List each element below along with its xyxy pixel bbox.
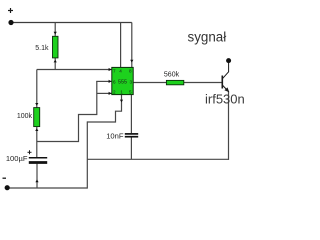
wire: pin7 horizontal run	[37, 69, 112, 71]
pin arrow 555 pin7	[109, 68, 112, 71]
wire: R2 bottom to C1 top	[36, 127, 38, 157]
pin arrow 555 pin6	[109, 80, 112, 83]
wire: C1 bottom to ground rail	[36, 164, 38, 188]
svg-text:3: 3	[130, 79, 133, 84]
battery positive terminal +	[8, 8, 13, 13]
pin arrow R1 bottom	[54, 60, 57, 63]
wire: ground riser up to net B	[86, 121, 88, 188]
svg-text:5: 5	[129, 90, 132, 95]
pin arrow R1 top	[54, 32, 57, 35]
capacitor C2 10nF bottom plate	[125, 136, 138, 138]
svg-text:10nF: 10nF	[106, 132, 124, 141]
pin arrow 555 pin1	[120, 100, 123, 103]
svg-text:6: 6	[113, 79, 116, 84]
wire: pin2 stub	[97, 92, 112, 94]
IC U1 555 body	[112, 67, 133, 94]
svg-text:560k: 560k	[164, 72, 180, 79]
svg-text:100µF: 100µF	[6, 154, 28, 163]
wire: C2 bottom to ground branch	[130, 137, 132, 159]
svg-text:5.1k: 5.1k	[35, 45, 49, 52]
capacitor C2 10nF top plate	[125, 133, 138, 135]
svg-text:2: 2	[113, 90, 116, 95]
wire: rail corner to 555 pin8	[131, 23, 133, 68]
svg-text:8: 8	[129, 69, 132, 74]
pin arrow C1 bottom	[35, 179, 38, 182]
transistor Q1 emitter	[222, 85, 228, 92]
svg-text:4: 4	[119, 69, 122, 74]
pin arrow 555 pin8	[130, 60, 133, 63]
capacitor C1 100uF plus sign	[28, 150, 32, 154]
node: battery + dot	[8, 20, 13, 25]
wire: 555 pin3 to R3	[133, 82, 166, 84]
wire: net A staircase pins 6+2 to cap node	[37, 81, 97, 141]
svg-text:100k: 100k	[17, 113, 33, 120]
battery negative terminal -	[3, 177, 7, 179]
capacitor C1 100uF bottom plate	[29, 161, 47, 164]
transistor Q1 base bar	[221, 76, 223, 89]
svg-text:1: 1	[120, 90, 123, 95]
wire: top VCC rail	[11, 22, 132, 24]
node: collector signal dot	[226, 58, 231, 63]
resistor R1 5.1k	[53, 36, 59, 58]
transistor Q1 emitter arrow	[224, 87, 229, 92]
transistor Q1 collector	[222, 63, 228, 79]
resistor R3 560k	[166, 80, 183, 84]
node: battery - dot	[5, 185, 10, 190]
wire: R3 to transistor base	[184, 82, 222, 84]
wire: pin6 stub	[96, 80, 112, 82]
resistor R2 100k	[34, 108, 40, 127]
wire: R1 bottom to pin7 node	[54, 58, 56, 70]
wire: ground branch to transistor emitter	[87, 158, 228, 160]
svg-text:555: 555	[118, 80, 127, 86]
svg-text:7: 7	[113, 69, 116, 74]
wire: rail to R1 top	[54, 23, 56, 37]
pin arrow R2 top	[35, 103, 38, 106]
wire: net B staircase to 555 pin1	[87, 95, 121, 122]
svg-text:irf530n: irf530n	[205, 92, 245, 107]
wire: 555 pin5 down to C2	[130, 95, 132, 134]
pin arrow 555 pin2	[109, 92, 112, 95]
wire: junction down to R2 top	[36, 70, 38, 108]
wire: bottom ground rail	[7, 187, 87, 189]
capacitor C1 100uF top plate	[29, 157, 47, 159]
pin arrow R2 bottom	[35, 128, 38, 131]
wire: emitter riser	[228, 92, 230, 160]
svg-text:sygnał: sygnał	[188, 30, 227, 45]
wire: rail to 555 pin4	[120, 23, 122, 68]
